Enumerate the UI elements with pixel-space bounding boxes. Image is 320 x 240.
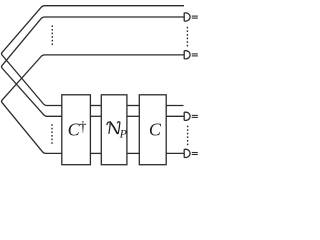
wire 1 (top rail + fold back into C-dagger input 1) [2,6,185,106]
ellipsis dots top-right [187,27,188,47]
wire 3 (bottom rail + fold back into C-dagger input 3) [2,55,184,153]
wire C-dagger to N_P, line 2 [90,115,101,117]
wire 2 (second rail + fold back into C-dagger input 2) [2,17,184,116]
wire to detector bottom-2 [166,152,184,154]
wire N_P to C, line 1 [127,105,139,107]
svg-text:P: P [119,127,128,141]
ellipsis dots bottom-right [187,126,188,146]
detector top-2 (wire 3) [184,51,198,59]
label N (calligraphic) of box N_P [107,122,120,134]
detector top-1 (wire 2) [184,13,198,21]
wire N_P to C, line k [127,152,139,154]
detector bottom-1 [184,112,198,120]
detector bottom-2 [184,149,198,157]
svg-text:†: † [79,119,86,135]
ellipsis dots bottom-left [51,124,52,144]
box C-dagger [62,95,91,165]
svg-text:C: C [149,119,162,139]
ellipsis dots top-left [52,25,53,45]
wire to detector bottom-1 [166,115,184,117]
wire C-dagger to N_P, line 1 [90,105,101,107]
wire out of C (no detector) [166,105,183,107]
box C [139,95,166,165]
wire C-dagger to N_P, line k [90,152,101,154]
box N_P [101,95,127,165]
wire N_P to C, line 2 [127,115,139,117]
